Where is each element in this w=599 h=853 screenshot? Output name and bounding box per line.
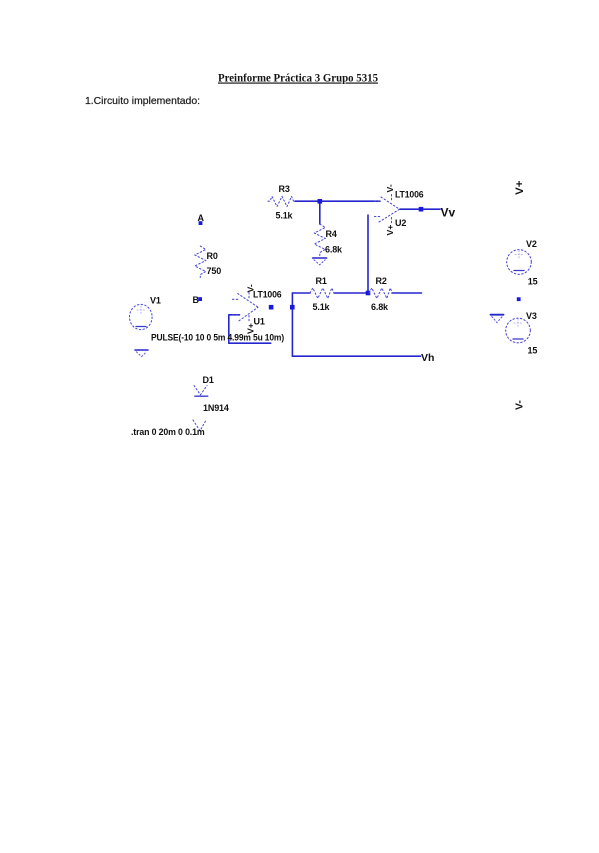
svg-text:R2: R2 [376, 276, 387, 286]
wire Vh rail [292, 355, 420, 357]
svg-text:1.Circuito implementado:: 1.Circuito implementado: [85, 96, 200, 107]
node junction R3/R4 [318, 199, 323, 204]
svg-text:5.1k: 5.1k [313, 302, 331, 312]
node on left vertical wire [290, 305, 295, 310]
svg-text:15: 15 [528, 277, 538, 287]
svg-text:LT1006: LT1006 [253, 289, 282, 299]
wire R1 to R2 [334, 292, 366, 294]
resistor R4 [314, 224, 325, 256]
svg-text:PULSE(-10 10 0 5m 4.99m 5u 10m: PULSE(-10 10 0 5m 4.99m 5u 10m) [151, 333, 284, 343]
voltage source V3 [506, 318, 531, 343]
svg-text:V-: V- [514, 400, 526, 410]
diode symbol fragment near .tran [193, 419, 207, 431]
svg-text:U2: U2 [395, 218, 406, 228]
wire left of R1 [292, 292, 310, 294]
wire junction to R4 top [319, 202, 321, 224]
ground left of V3 [491, 315, 504, 323]
node on Vv wire [419, 207, 424, 212]
svg-text:D1: D1 [203, 375, 214, 385]
svg-text:1N914: 1N914 [203, 403, 229, 413]
svg-text:V-: V- [385, 184, 395, 192]
svg-text:V3: V3 [526, 311, 537, 321]
svg-text:15: 15 [528, 346, 538, 356]
svg-text:750: 750 [207, 266, 222, 276]
node between V2 and V3 [517, 297, 521, 301]
svg-text:V+: V+ [514, 180, 526, 195]
wire U2 output to Vv [400, 208, 440, 210]
ground below R4 [313, 258, 327, 265]
svg-text:5.1k: 5.1k [276, 211, 294, 221]
node at U1 output [269, 305, 274, 310]
svg-text:6.8k: 6.8k [325, 245, 343, 255]
svg-text:Vh: Vh [421, 352, 434, 364]
svg-text:V-: V- [245, 284, 255, 292]
svg-text:Preinforme Práctica 3 Grupo 53: Preinforme Práctica 3 Grupo 5315 [218, 72, 378, 85]
svg-text:R1: R1 [316, 276, 327, 286]
svg-text:Vv: Vv [441, 206, 456, 220]
resistor R1 [310, 288, 334, 298]
op-amp U2 LT1006 [375, 195, 400, 225]
op-amp U1 LT1006 [233, 293, 259, 323]
svg-text:R4: R4 [326, 229, 337, 239]
wire right of R2 [392, 292, 422, 294]
resistor R0 [195, 246, 206, 278]
resistor R2 [369, 288, 392, 298]
diode D1 [194, 386, 208, 397]
resistor R3 [268, 196, 296, 206]
svg-text:V+: V+ [385, 225, 395, 236]
wire left vertical down to Vh rail [291, 293, 293, 356]
node junction R1/R2 [366, 291, 371, 296]
svg-text:R3: R3 [279, 184, 290, 194]
wire U1 feedback loop [229, 315, 271, 343]
svg-text:6.8k: 6.8k [371, 302, 389, 312]
svg-text:.tran 0 20m 0 0.1m: .tran 0 20m 0 0.1m [131, 427, 205, 437]
voltage source V1 [130, 304, 153, 329]
svg-text:V+: V+ [246, 323, 256, 334]
wire U2 + input stub down to R1/R2 junction [367, 215, 369, 293]
wire R3 output to U2 inverting input [295, 200, 380, 202]
svg-text:R0: R0 [207, 251, 218, 261]
svg-text:V2: V2 [526, 239, 537, 249]
svg-text:V1: V1 [150, 296, 161, 306]
svg-text:LT1006: LT1006 [395, 189, 424, 199]
voltage source V2 [507, 250, 532, 275]
ground below V1 [135, 350, 148, 357]
